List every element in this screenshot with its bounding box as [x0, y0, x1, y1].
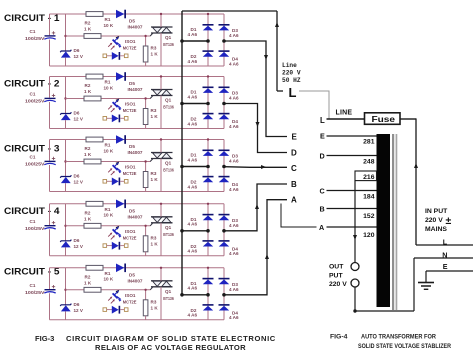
node bridge mid A — [206, 165, 210, 169]
svg-text:R1: R1 — [105, 207, 111, 212]
node mid-rail junction — [64, 35, 66, 37]
svg-text:A: A — [291, 195, 297, 204]
label ISO1 MCT2E — [123, 229, 137, 241]
svg-text:BT136: BT136 — [163, 105, 174, 110]
svg-text:ISO1: ISO1 — [125, 39, 136, 44]
svg-text:281: 281 — [363, 139, 375, 146]
svg-text:R2: R2 — [85, 21, 91, 26]
label D3 value 4 A6 — [229, 91, 239, 101]
node bridge top A — [207, 267, 209, 269]
wire tap A — [327, 226, 377, 228]
optocoupler ISO1 phototransistor — [108, 162, 121, 176]
triac Q1 — [150, 153, 172, 162]
svg-text:4 A6: 4 A6 — [188, 286, 198, 291]
wire route C — [224, 166, 287, 169]
svg-text:D5: D5 — [129, 19, 135, 24]
svg-text:100/25V: 100/25V — [25, 36, 46, 41]
wire second rail lower — [65, 311, 67, 319]
svg-text:SOLID STATE VOLTAGE STABLIZER: SOLID STATE VOLTAGE STABLIZER — [358, 343, 451, 350]
node bridge mid B — [222, 293, 226, 297]
LED of optocoupler — [103, 178, 128, 186]
label D4 value 4 A6 — [229, 310, 239, 320]
node bridge mid B — [222, 39, 226, 43]
wire route E — [224, 41, 287, 137]
node mid-rail junction — [64, 289, 66, 291]
wire second rail lower — [65, 58, 67, 66]
label R1 10 K — [104, 143, 114, 154]
label D1 value 4 A6 — [188, 281, 198, 291]
label D5 IN4007 — [128, 19, 143, 30]
node bridge mid A — [206, 102, 210, 106]
wire mid horizontal — [66, 161, 151, 163]
svg-text:R3: R3 — [151, 108, 157, 113]
diode D2 bridge — [203, 113, 214, 119]
svg-text:220 V: 220 V — [329, 281, 347, 288]
svg-text:D5: D5 — [129, 144, 135, 149]
wire bridge mid left segment — [182, 230, 208, 232]
svg-text:4 A6: 4 A6 — [188, 222, 198, 227]
svg-text:IN4007: IN4007 — [128, 278, 143, 283]
resistor R2 — [84, 223, 101, 228]
svg-text:C: C — [291, 164, 297, 173]
node bridge top A — [207, 75, 209, 77]
diode D1 bridge — [203, 214, 214, 220]
transformer T1 winding — [377, 134, 391, 307]
LED of optocoupler — [103, 306, 128, 314]
wire output bottom — [355, 287, 414, 311]
svg-text:C1: C1 — [30, 92, 36, 97]
resistor R3 — [143, 226, 148, 256]
label R2 1 K — [84, 210, 92, 221]
svg-text:10 K: 10 K — [104, 23, 114, 28]
label ISO1 MCT2E — [123, 102, 137, 114]
svg-text:10 K: 10 K — [104, 85, 114, 90]
node bridge mid B — [222, 102, 226, 106]
circuit 4 block — [4, 200, 239, 257]
svg-text:248: 248 — [363, 159, 375, 166]
wire top rail — [50, 76, 225, 78]
svg-text:1 K: 1 K — [84, 89, 92, 94]
diode D3 bridge — [219, 214, 230, 220]
diode D2 bridge — [203, 176, 214, 182]
svg-text:1 K: 1 K — [84, 152, 92, 157]
label D5 IN4007 — [128, 81, 143, 92]
label R3 1 K — [151, 108, 159, 119]
wire bottom rail — [50, 319, 225, 321]
wire left rail lower — [49, 40, 51, 67]
wire fuse output — [400, 118, 416, 120]
svg-text:1 K: 1 K — [151, 177, 159, 182]
wire triac anode — [160, 268, 162, 281]
svg-text:D6: D6 — [74, 174, 80, 179]
label R1 10 K — [104, 207, 114, 218]
svg-text:4 A6: 4 A6 — [229, 124, 239, 129]
resistor R1 — [86, 74, 103, 79]
svg-text:IN4007: IN4007 — [128, 25, 143, 30]
wire bridge column A — [207, 77, 209, 129]
wire bridge column B — [223, 140, 225, 192]
svg-text:R3: R3 — [151, 235, 157, 240]
label D1 value 4 A6 — [188, 153, 198, 163]
label Q1 BT136 — [163, 98, 174, 110]
svg-text:220 V: 220 V — [425, 217, 443, 224]
label C1 100/25V — [25, 155, 46, 167]
node R3 top — [144, 225, 146, 227]
svg-text:4 A6: 4 A6 — [188, 313, 198, 318]
svg-text:216: 216 — [363, 174, 375, 181]
transformer core laminations — [392, 134, 397, 310]
wire left rail upper — [49, 14, 51, 35]
resistor R2 — [84, 96, 101, 101]
svg-text:4 A6: 4 A6 — [188, 249, 198, 254]
resistor R1 — [86, 12, 103, 17]
svg-text:ISO1: ISO1 — [125, 165, 136, 170]
label C1 100/25V — [25, 92, 46, 104]
capacitor C1 — [44, 221, 55, 229]
wire bridge column B — [223, 14, 225, 66]
diode D1 bridge — [203, 278, 214, 284]
wire bottom rail — [50, 191, 225, 193]
wire tap C — [327, 190, 377, 192]
wire triac cathode — [160, 159, 162, 192]
svg-text:D5: D5 — [129, 208, 135, 213]
svg-text:1 K: 1 K — [84, 280, 92, 285]
svg-text:D: D — [320, 151, 325, 160]
node bridge mid A — [206, 293, 210, 297]
svg-text:184: 184 — [363, 193, 375, 200]
wire route A — [224, 200, 287, 295]
svg-text:Line: Line — [282, 62, 297, 69]
svg-text:1 K: 1 K — [84, 27, 92, 32]
label D3 value 4 A6 — [229, 28, 239, 38]
diode D3 bridge — [219, 278, 230, 284]
diode D5 — [116, 200, 126, 209]
output tap box 216 — [355, 171, 377, 181]
wire line to fuse — [327, 118, 365, 120]
svg-text:LINE: LINE — [336, 110, 353, 117]
wire top rail — [50, 13, 225, 15]
svg-text:R3: R3 — [151, 171, 157, 176]
label C1 100/25V — [25, 283, 46, 295]
label C1 100/25V — [25, 219, 46, 231]
node bridge top A — [207, 13, 209, 15]
svg-text:ISO1: ISO1 — [125, 102, 136, 107]
wire L stub — [277, 90, 283, 92]
label Line 220 V 50 HZ — [282, 62, 301, 84]
svg-text:R1: R1 — [105, 271, 111, 276]
node bus junction — [180, 293, 184, 297]
svg-text:BT136: BT136 — [163, 296, 174, 301]
svg-text:4 A6: 4 A6 — [188, 184, 198, 189]
label C1 100/25V — [25, 29, 46, 41]
wire left rail upper — [49, 77, 51, 98]
diode D5 — [116, 264, 126, 273]
label D5 IN4007 — [128, 208, 143, 219]
wire second rail upper — [65, 14, 67, 51]
svg-text:100/25V: 100/25V — [25, 290, 46, 295]
svg-text:IN4007: IN4007 — [128, 150, 143, 155]
triac Q1 — [150, 90, 172, 99]
diode D4 bridge — [219, 176, 230, 182]
node bridge mid A — [206, 39, 210, 43]
svg-text:E: E — [443, 262, 448, 271]
svg-text:C: C — [320, 186, 325, 195]
svg-text:Q1: Q1 — [165, 35, 172, 40]
svg-text:CIRCUIT - 4: CIRCUIT - 4 — [4, 206, 60, 216]
resistor R1 — [86, 265, 103, 270]
label R1 10 K — [104, 17, 114, 28]
node triac top — [160, 13, 162, 15]
label D6 12 V — [74, 302, 84, 313]
wire triac cathode — [160, 287, 162, 320]
diode D3 bridge — [219, 24, 230, 30]
svg-text:4 A6: 4 A6 — [229, 187, 239, 192]
svg-text:152: 152 — [363, 213, 375, 220]
wire bridge mid left segment — [182, 294, 208, 296]
wire mid horizontal — [66, 98, 151, 100]
node mid-rail junction — [64, 225, 66, 227]
diode D3 bridge — [219, 87, 230, 93]
wire second rail upper — [65, 268, 67, 305]
svg-text:10 K: 10 K — [104, 148, 114, 153]
svg-text:R1: R1 — [105, 80, 111, 85]
LED of optocoupler — [103, 115, 128, 123]
svg-text:Q1: Q1 — [165, 98, 172, 103]
svg-text:R1: R1 — [105, 143, 111, 148]
node triac top — [160, 138, 162, 140]
svg-text:MCT2E: MCT2E — [123, 299, 137, 304]
node bus junction — [180, 39, 184, 43]
resistor R1 — [86, 137, 103, 142]
svg-text:C1: C1 — [30, 29, 36, 34]
wire output drop — [354, 181, 356, 263]
wire tap E — [327, 135, 377, 137]
svg-text:D6: D6 — [74, 302, 80, 307]
label D3 value 4 A6 — [229, 154, 239, 164]
resistor R3 — [143, 99, 148, 129]
wire bridge column A — [207, 268, 209, 320]
svg-text:L: L — [443, 237, 448, 246]
wire second rail upper — [65, 204, 67, 241]
resistor R2 — [84, 159, 101, 164]
label R2 1 K — [84, 83, 92, 94]
svg-text:CIRCUIT DIAGRAM OF SOLID STATE: CIRCUIT DIAGRAM OF SOLID STATE ELECTRONI… — [66, 334, 276, 343]
svg-text:12 V: 12 V — [74, 308, 84, 313]
svg-text:ISO1: ISO1 — [125, 229, 136, 234]
svg-text:R2: R2 — [85, 274, 91, 279]
circuit 2 block — [4, 72, 239, 129]
label R3 1 K — [151, 235, 159, 246]
svg-text:AUTO TRANSFORMER FOR: AUTO TRANSFORMER FOR — [361, 334, 436, 341]
svg-text:BT136: BT136 — [163, 232, 174, 237]
wire bridge column A — [207, 140, 209, 192]
svg-text:120: 120 — [363, 232, 375, 239]
svg-text:12 V: 12 V — [74, 117, 84, 122]
node triac top — [160, 267, 162, 269]
wire bridge column B — [223, 268, 225, 320]
wire bridge column B — [223, 77, 225, 129]
diode D3 bridge — [219, 150, 230, 156]
svg-text:MCT2E: MCT2E — [123, 171, 137, 176]
svg-text:1 K: 1 K — [151, 114, 159, 119]
node mid-rail junction — [64, 160, 66, 162]
diode D5 — [116, 10, 126, 19]
svg-text:12 V: 12 V — [74, 54, 84, 59]
svg-text:B: B — [291, 180, 297, 189]
svg-text:FIG-4: FIG-4 — [330, 334, 348, 341]
svg-text:1 K: 1 K — [151, 241, 159, 246]
diode D2 bridge — [203, 304, 214, 310]
label D4 value 4 A6 — [229, 246, 239, 256]
diode D5 — [116, 135, 126, 144]
zener diode D6 — [60, 304, 71, 312]
node R3 top — [144, 35, 146, 37]
svg-text:L: L — [289, 85, 297, 100]
node bridge top A — [207, 203, 209, 205]
optocoupler ISO1 phototransistor — [108, 290, 121, 304]
svg-text:4 A6: 4 A6 — [188, 32, 198, 37]
wire top rail — [50, 267, 225, 269]
resistor R2 — [84, 34, 101, 39]
wire triac anode — [160, 140, 162, 153]
triac Q1 — [150, 217, 172, 226]
triac Q1 — [150, 27, 172, 36]
wire second rail upper — [65, 77, 67, 114]
svg-text:12 V: 12 V — [74, 244, 84, 249]
wire L drop vertical — [276, 11, 278, 91]
label R3 1 K — [151, 46, 159, 57]
label D1 value 4 A6 — [188, 27, 198, 37]
label Q1 BT136 — [163, 35, 174, 47]
svg-text:D6: D6 — [74, 238, 80, 243]
svg-text:Q1: Q1 — [165, 161, 172, 166]
wire mid horizontal — [66, 225, 151, 227]
LED of optocoupler — [103, 242, 128, 250]
svg-text:MCT2E: MCT2E — [123, 46, 137, 51]
label ISO1 MCT2E — [123, 293, 137, 305]
svg-text:100/25V: 100/25V — [25, 99, 46, 104]
wire mains N line — [414, 257, 473, 259]
node bridge top A — [207, 138, 209, 140]
wire triac anode — [160, 14, 162, 27]
wire mains L line — [416, 244, 473, 246]
node output bottom junction — [353, 309, 356, 312]
terminal output lower — [351, 279, 359, 287]
zener diode D6 — [60, 240, 71, 248]
node bridge mid A — [206, 229, 210, 233]
label D2 value 4 A6 — [188, 180, 198, 190]
capacitor C1 — [44, 157, 55, 165]
svg-text:R3: R3 — [151, 46, 157, 51]
label R2 1 K — [84, 21, 92, 32]
node bridge mid B — [222, 229, 226, 233]
svg-text:D: D — [291, 148, 297, 157]
svg-text:C1: C1 — [30, 155, 36, 160]
svg-text:4 A6: 4 A6 — [229, 96, 239, 101]
wire bridge mid left segment — [182, 166, 208, 168]
wire bus top horizontal — [182, 10, 277, 12]
svg-text:A: A — [319, 223, 324, 232]
svg-text:Q1: Q1 — [165, 225, 172, 230]
svg-text:4 A6: 4 A6 — [229, 251, 239, 256]
label IN PUT 220 V ± MAINS — [425, 208, 452, 233]
svg-text:C1: C1 — [30, 219, 36, 224]
circuit 1 block — [4, 10, 239, 67]
label D3 value 4 A6 — [229, 282, 239, 292]
label Q1 BT136 — [163, 161, 174, 173]
LED of optocoupler — [103, 52, 128, 60]
diode D2 bridge — [203, 240, 214, 246]
svg-text:10 K: 10 K — [104, 213, 114, 218]
zener diode D6 — [60, 112, 71, 120]
wire bottom rail — [50, 65, 225, 67]
optocoupler ISO1 phototransistor — [108, 226, 121, 240]
wire L link to FIG-4 — [299, 91, 329, 119]
wire route D — [224, 104, 287, 153]
svg-text:FIG-3: FIG-3 — [35, 334, 54, 343]
zener diode D6 — [60, 175, 71, 183]
node bus junction — [180, 165, 184, 169]
node bus junction — [180, 229, 184, 233]
wire A link to FIG-4 — [281, 204, 317, 228]
wire bridge column A — [207, 204, 209, 256]
wire bridge mid left segment — [182, 40, 208, 42]
svg-text:Q1: Q1 — [165, 289, 172, 294]
resistor R3 — [143, 290, 148, 320]
svg-text:BT136: BT136 — [163, 42, 174, 47]
wire common bus vertical — [181, 11, 183, 295]
svg-text:12 V: 12 V — [74, 180, 84, 185]
svg-text:D6: D6 — [74, 48, 80, 53]
wire left rail lower — [49, 229, 51, 256]
label R2 1 K — [84, 146, 92, 157]
diode D2 bridge — [203, 50, 214, 56]
label Q1 BT136 — [163, 289, 174, 301]
svg-text:R2: R2 — [85, 210, 91, 215]
diode D4 bridge — [219, 240, 230, 246]
svg-text:D5: D5 — [129, 81, 135, 86]
wire triac cathode — [160, 96, 162, 129]
svg-text:4 A6: 4 A6 — [229, 61, 239, 66]
svg-text:1 K: 1 K — [84, 216, 92, 221]
caption FIG-4 — [330, 334, 451, 351]
svg-text:IN4007: IN4007 — [128, 214, 143, 219]
wire input N vertical — [413, 258, 415, 311]
svg-text:CIRCUIT - 3: CIRCUIT - 3 — [4, 143, 60, 153]
svg-text:N: N — [442, 251, 447, 260]
label R1 10 K — [104, 271, 114, 282]
resistor R2 — [84, 287, 101, 292]
label D1 value 4 A6 — [188, 217, 198, 227]
wire bridge mid left segment — [182, 103, 208, 105]
wire left rail upper — [49, 204, 51, 225]
wire bottom rail — [50, 128, 225, 130]
label D2 value 4 A6 — [188, 308, 198, 318]
svg-text:4 A6: 4 A6 — [229, 287, 239, 292]
svg-text:R3: R3 — [151, 299, 157, 304]
svg-text:D5: D5 — [129, 272, 135, 277]
wire mid horizontal — [66, 35, 151, 37]
node mid-rail junction — [64, 97, 66, 99]
label Q1 BT136 — [163, 225, 174, 237]
label D6 12 V — [74, 111, 84, 122]
wire bridge column A — [207, 14, 209, 66]
svg-text:MAINS: MAINS — [425, 226, 447, 233]
label D5 IN4007 — [128, 144, 143, 155]
node bridge mid B — [222, 165, 226, 169]
label D2 value 4 A6 — [188, 244, 198, 254]
wire triac cathode — [160, 33, 162, 66]
